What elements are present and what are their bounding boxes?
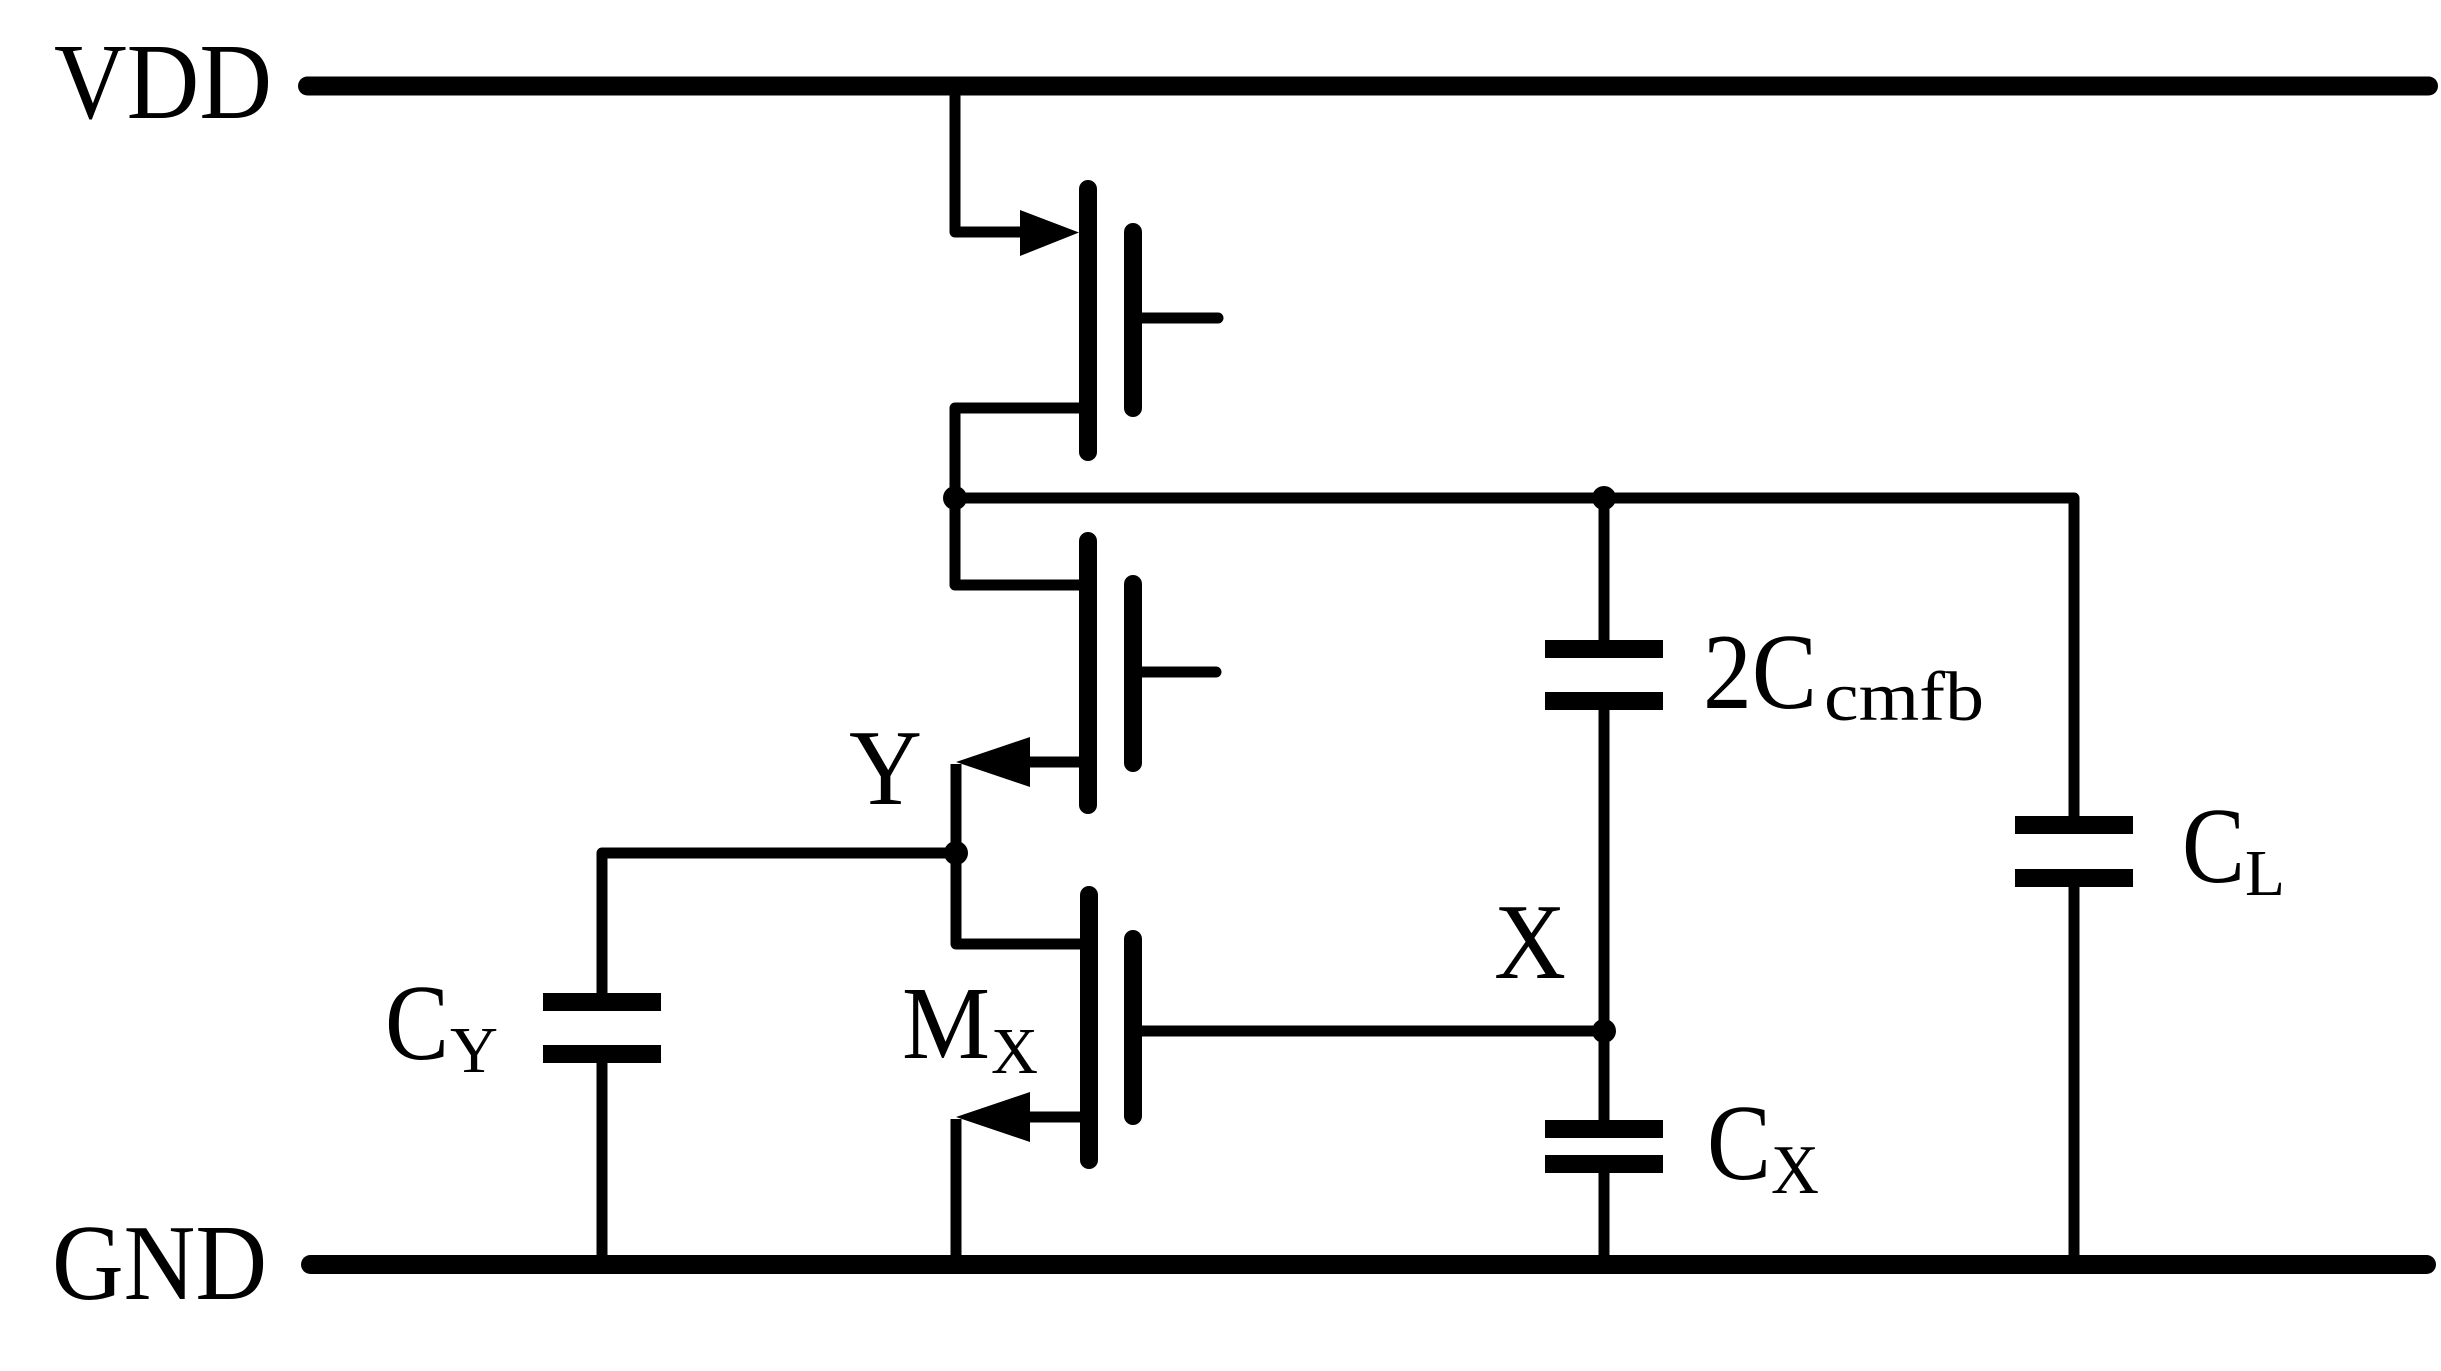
wire output node line to CL corner <box>955 498 2074 816</box>
svg-text:C: C <box>385 964 449 1083</box>
wire M1 drain to output node <box>955 408 1079 498</box>
transistor M2 gate bar <box>1124 584 1142 763</box>
capacitor 2Ccmfb bottom plate <box>1545 692 1663 710</box>
capacitor CX bottom plate <box>1545 1155 1663 1173</box>
wire MX gate to node X <box>1133 1026 1604 1037</box>
wire node Y to CY <box>602 853 956 993</box>
transistor M2 source arrow <box>956 737 1030 787</box>
svg-text:X: X <box>991 1015 1038 1088</box>
svg-text:C: C <box>2182 787 2245 906</box>
wire CL to GND <box>2069 887 2080 1256</box>
capacitor CL top plate <box>2015 816 2133 834</box>
svg-text:2C: 2C <box>1703 613 1817 732</box>
node X junction dot <box>1592 1019 1616 1043</box>
transistor M2 gate lead <box>1133 667 1216 678</box>
wire output node to 2Ccmfb <box>1599 498 1610 640</box>
transistor MX gate bar <box>1124 939 1142 1116</box>
transistor M1 gate lead <box>1133 313 1218 324</box>
capacitor CX top plate <box>1545 1120 1663 1138</box>
transistor M1 channel bar <box>1079 189 1097 452</box>
transistor M1 gate bar <box>1124 232 1142 408</box>
svg-text:Y: Y <box>849 709 922 828</box>
wire M2 source to node Y <box>951 764 962 853</box>
wire 2Ccmfb to node X <box>1599 710 1610 1031</box>
svg-text:M: M <box>902 966 990 1081</box>
wire VDD to M1 source <box>955 86 1025 232</box>
capacitor CY top plate <box>543 993 661 1011</box>
svg-text:GND: GND <box>52 1204 267 1323</box>
node Y junction dot <box>944 841 968 865</box>
capacitor CY bottom plate <box>543 1045 661 1063</box>
wire output node to M2 drain <box>955 498 1079 585</box>
transistor MX channel bar <box>1080 895 1098 1160</box>
wire MX source to GND <box>951 1119 962 1256</box>
svg-text:L: L <box>2245 837 2285 910</box>
wire node Y to MX drain <box>956 853 1080 944</box>
transistor M1 source arrow <box>1020 210 1079 256</box>
wire CY to GND <box>597 1063 608 1256</box>
transistor MX source lead <box>1026 1112 1080 1123</box>
transistor M2 source lead <box>1026 757 1079 768</box>
svg-text:cmfb: cmfb <box>1824 659 1984 736</box>
svg-text:Y: Y <box>450 1014 498 1087</box>
capacitor 2Ccmfb top plate <box>1545 640 1663 658</box>
wire node X to CX <box>1599 1031 1610 1120</box>
junction dot output node to 2Ccmfb <box>1592 486 1616 510</box>
capacitor CL bottom plate <box>2015 869 2133 887</box>
transistor M2 channel bar <box>1079 541 1097 805</box>
svg-text:X: X <box>1771 1132 1819 1209</box>
ground rail GND <box>311 1255 2427 1274</box>
transistor MX source arrow <box>956 1092 1030 1142</box>
svg-text:VDD: VDD <box>54 23 272 142</box>
node output junction dot <box>943 486 967 510</box>
power rail VDD <box>308 77 2429 96</box>
svg-text:C: C <box>1707 1084 1771 1203</box>
wire CX to GND <box>1599 1173 1610 1256</box>
svg-text:X: X <box>1494 883 1566 1002</box>
